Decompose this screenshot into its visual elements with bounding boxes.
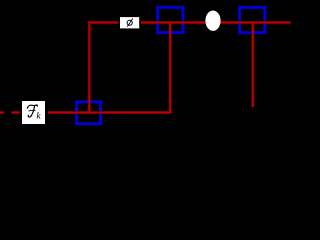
node E1 (white ellipse) <box>205 11 220 31</box>
wire stub from U2 down <box>252 23 254 108</box>
wire left vertical with corner to top horizontal <box>89 23 290 113</box>
box U3 (bottom blue square) <box>77 102 101 124</box>
label phi (phase box) <box>118 16 140 30</box>
box U1 (top-left blue square) <box>158 7 183 32</box>
box U2 (top-right blue square) <box>240 7 265 32</box>
label Fk (filter box) <box>20 99 47 126</box>
wire halo layer <box>0 23 291 113</box>
wire input dashed segment <box>0 112 22 114</box>
wire bottom horizontal with corner up (net to U1) <box>48 23 170 113</box>
